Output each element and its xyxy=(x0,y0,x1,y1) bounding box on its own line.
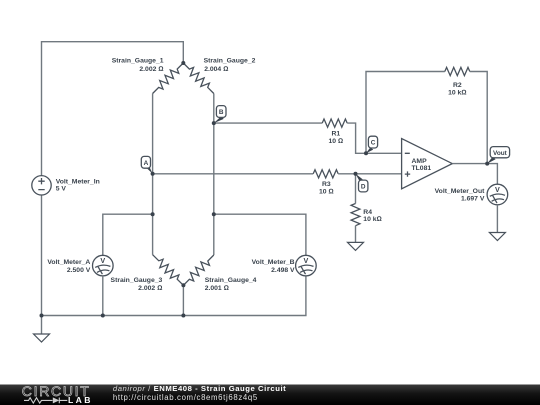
node B flag xyxy=(212,106,226,126)
resistor R3 xyxy=(313,170,338,178)
svg-text:Volt_Meter_A: Volt_Meter_A xyxy=(47,259,90,266)
strain gauge SG1 xyxy=(153,63,184,94)
svg-text:daniropr / ENME408 - Strain Ga: daniropr / ENME408 - Strain Gauge Circui… xyxy=(113,384,286,393)
svg-text:2.004 Ω: 2.004 Ω xyxy=(204,66,228,73)
svg-text:2.002 Ω: 2.002 Ω xyxy=(139,66,163,73)
svg-text:10 Ω: 10 Ω xyxy=(328,138,343,145)
svg-text:Strain_Gauge_3: Strain_Gauge_3 xyxy=(111,277,163,284)
strain gauge SG4 xyxy=(183,255,213,285)
junction bottom vertex rail xyxy=(181,314,185,318)
svg-text:2.002 Ω: 2.002 Ω xyxy=(138,285,162,292)
resistor R4 xyxy=(351,204,360,226)
wire bottom vertex stem xyxy=(182,285,184,315)
node D flag xyxy=(354,172,368,192)
svg-text:http://circuitlab.com/c8em6tj6: http://circuitlab.com/c8em6tj68z4q5 xyxy=(113,393,258,402)
svg-text:Volt_Meter_B: Volt_Meter_B xyxy=(252,259,295,266)
wire meter B tap xyxy=(214,214,306,255)
svg-text:AMP: AMP xyxy=(412,158,428,165)
wire R3 to op-amp plus xyxy=(338,173,401,175)
junction bottom vertex xyxy=(181,283,185,287)
junction top vertex xyxy=(181,61,185,65)
svg-text:Volt_Meter_Out: Volt_Meter_Out xyxy=(435,188,485,195)
wire top from source to bridge top xyxy=(42,42,184,176)
wire bridge left rail xyxy=(152,94,154,255)
svg-text:C: C xyxy=(371,140,376,147)
junction ground rail left xyxy=(40,314,44,318)
footer logo resistor-diode squiggle xyxy=(24,398,67,404)
wire R4 to ground xyxy=(355,226,357,243)
svg-text:5 V: 5 V xyxy=(56,185,67,192)
wire feedback loop left vertical xyxy=(366,72,445,154)
svg-text:R3: R3 xyxy=(322,181,331,188)
wire meter A tap xyxy=(103,214,153,255)
voltmeter Volt_Meter_B xyxy=(296,255,317,276)
svg-text:Strain_Gauge_1: Strain_Gauge_1 xyxy=(112,57,164,64)
node C flag xyxy=(364,136,378,155)
svg-text:2.500 V: 2.500 V xyxy=(67,267,91,274)
svg-text:A: A xyxy=(144,160,149,167)
wire meter A to ground rail xyxy=(102,276,104,316)
svg-text:R4: R4 xyxy=(363,209,372,216)
wire feedback right vertical to output xyxy=(470,72,487,164)
svg-text:R2: R2 xyxy=(453,82,462,89)
svg-text:Strain_Gauge_2: Strain_Gauge_2 xyxy=(204,57,256,64)
wire node B to R1 xyxy=(214,122,322,124)
strain gauge SG3 xyxy=(153,255,184,286)
resistor R1 xyxy=(322,119,347,127)
wire R1 to op-amp minus xyxy=(347,123,401,153)
wire meter out to ground xyxy=(496,205,498,233)
svg-text:V: V xyxy=(495,185,500,194)
svg-text:Vout: Vout xyxy=(493,150,508,157)
voltmeter Volt_Meter_Out xyxy=(487,184,508,205)
wire bridge right rail xyxy=(213,94,215,256)
svg-text:10 Ω: 10 Ω xyxy=(319,189,334,196)
wire bottom ground rail xyxy=(42,276,306,316)
svg-text:10 kΩ: 10 kΩ xyxy=(448,90,466,97)
svg-text:2.001 Ω: 2.001 Ω xyxy=(205,285,229,292)
svg-text:V: V xyxy=(304,256,309,265)
op-amp U1 AMP TL081 xyxy=(402,139,453,189)
svg-text:TL081: TL081 xyxy=(412,165,432,172)
svg-text:B: B xyxy=(219,109,224,116)
junction meter A tap xyxy=(151,212,155,216)
wire left rail below source to ground rail xyxy=(41,195,43,316)
wire node A to R3 xyxy=(153,173,314,175)
svg-text:2.498 V: 2.498 V xyxy=(271,267,295,274)
wire op-amp output xyxy=(452,164,497,185)
voltmeter Volt_Meter_A xyxy=(93,255,114,276)
ground R4 xyxy=(348,242,364,250)
voltage source Volt_Meter_In xyxy=(32,176,51,195)
svg-text:Volt_Meter_In: Volt_Meter_In xyxy=(56,178,100,185)
node Vout flag xyxy=(485,147,509,166)
svg-text:D: D xyxy=(361,184,366,191)
svg-text:Strain_Gauge_4: Strain_Gauge_4 xyxy=(205,277,257,284)
svg-text:V: V xyxy=(100,256,105,265)
svg-text:R1: R1 xyxy=(331,131,340,138)
node A flag xyxy=(141,156,154,175)
strain gauge SG2 xyxy=(183,63,214,94)
svg-text:1.697 V: 1.697 V xyxy=(461,196,485,203)
ground main xyxy=(34,316,50,343)
junction meter B tap xyxy=(212,212,216,216)
resistor R2 xyxy=(445,67,470,75)
svg-text:LAB: LAB xyxy=(68,395,93,405)
junction meter A bottom xyxy=(101,314,105,318)
wire R4 stem from node D xyxy=(355,174,357,204)
ground output xyxy=(489,233,505,241)
svg-text:10 kΩ: 10 kΩ xyxy=(363,216,381,223)
